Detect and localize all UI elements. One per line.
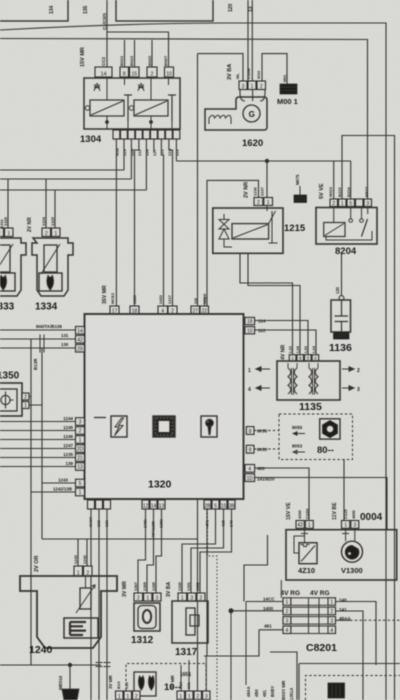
- svg-text:8: 8: [249, 429, 252, 435]
- svg-text:15V VE: 15V VE: [286, 502, 292, 520]
- svg-text:8053: 8053: [257, 447, 268, 452]
- ground M075: [294, 186, 307, 203]
- 4Z10 pins: [296, 521, 304, 529]
- svg-text:3: 3: [242, 84, 245, 90]
- 1135 transformer symbols: [288, 368, 291, 394]
- svg-text:2: 2: [151, 71, 154, 77]
- svg-text:1369: 1369: [142, 581, 147, 591]
- sensor 1334 body: [32, 238, 73, 296]
- relay 8204 body: [316, 208, 377, 245]
- relay unit 1304 body: [84, 78, 180, 129]
- 1350 pins: [22, 393, 29, 400]
- svg-text:10: 10: [247, 328, 253, 334]
- bus wire y179: [0, 178, 131, 180]
- svg-text:4V RG: 4V RG: [310, 590, 330, 597]
- svg-text:M00 1: M00 1: [277, 97, 298, 106]
- sensor 1334 pins: [42, 228, 51, 237]
- ECU 1320 left upper pins: [76, 327, 85, 335]
- wires from C8201 right: [336, 602, 377, 666]
- svg-text:2: 2: [79, 429, 82, 435]
- wire ECU 480 to 4Z10: [255, 468, 309, 521]
- svg-text:8055: 8055: [257, 429, 268, 434]
- wire 1304 to ECU pin 1433: [161, 139, 163, 306]
- svg-text:BN20: BN20: [147, 55, 152, 66]
- svg-text:2V NR: 2V NR: [244, 182, 250, 198]
- svg-text:1: 1: [118, 694, 121, 700]
- svg-text:123: 123: [175, 149, 180, 156]
- wire 1242/13B to ECU: [31, 491, 76, 493]
- svg-text:1W: 1W: [193, 298, 198, 304]
- svg-text:1240: 1240: [29, 644, 53, 656]
- svg-text:3: 3: [286, 619, 289, 625]
- svg-text:1: 1: [54, 231, 57, 237]
- svg-text:1230: 1230: [253, 186, 258, 196]
- wire ECU 114 to 1135: [255, 321, 308, 355]
- svg-text:1245: 1245: [63, 425, 73, 430]
- svg-text:4260: 4260: [297, 509, 302, 519]
- svg-text:5V VE: 5V VE: [319, 183, 325, 199]
- svg-text:4Z10: 4Z10: [298, 566, 315, 575]
- svg-text:L04: L04: [295, 345, 300, 353]
- svg-text:M075: M075: [295, 174, 300, 185]
- svg-text:B13R: B13R: [33, 358, 38, 370]
- svg-text:10: 10: [166, 71, 172, 77]
- svg-text:1: 1: [179, 694, 182, 700]
- svg-text:C8201: C8201: [306, 642, 337, 654]
- ECU bottom pins cluster2: [142, 500, 149, 509]
- svg-text:2: 2: [257, 200, 260, 206]
- ground ME016: [69, 665, 71, 689]
- ground under 1136: [334, 332, 350, 339]
- wire 8204 pin5 riser: [350, 161, 352, 199]
- box 0004: [286, 530, 397, 580]
- resistor 1312 body: [134, 603, 160, 631]
- wire 1235 to ECU: [0, 457, 76, 459]
- svg-text:C10N: C10N: [305, 509, 310, 519]
- bus wire top short (y32): [107, 32, 169, 67]
- svg-text:134: 134: [49, 5, 55, 14]
- svg-text:1: 1: [308, 523, 311, 529]
- svg-text:G: G: [249, 110, 255, 119]
- svg-text:2: 2: [357, 368, 360, 374]
- svg-text:8: 8: [123, 71, 126, 77]
- ECU 1320 left lower pins: [76, 418, 85, 426]
- svg-text:2B: 2B: [204, 503, 211, 509]
- svg-text:4: 4: [248, 467, 251, 473]
- svg-text:1: 1: [7, 231, 10, 237]
- wire branch left column (x31): [30, 339, 32, 665]
- svg-text:3V MR: 3V MR: [108, 674, 113, 689]
- wire 1215-route into ECU pin: [205, 298, 208, 306]
- idle valve 1215 pins: [254, 198, 263, 206]
- svg-text:W10: W10: [256, 70, 261, 79]
- svg-text:C125: C125: [343, 509, 348, 519]
- bus wire y161 1304-1215-8204: [176, 160, 350, 162]
- svg-text:5: 5: [349, 201, 352, 207]
- wire 130 to ECU: [0, 347, 76, 349]
- svg-text:13: 13: [248, 6, 254, 12]
- wire M40TA/B138 to ECU: [0, 329, 76, 331]
- svg-text:2D: 2D: [77, 447, 84, 453]
- svg-text:3: 3: [156, 595, 159, 601]
- relay unit 1304 bottom pins: [113, 130, 120, 139]
- wire feeds bottom pins: [180, 665, 182, 691]
- pump 1620 pins: [239, 81, 247, 90]
- svg-text:1: 1: [188, 694, 191, 700]
- wire branch to 1240 (x42): [41, 348, 43, 539]
- svg-text:C10M: C10M: [246, 68, 251, 79]
- bus wire top second: [0, 39, 368, 200]
- svg-text:1351A: 1351A: [289, 688, 294, 700]
- svg-text:1312: 1312: [131, 635, 154, 646]
- svg-text:1: 1: [286, 600, 289, 606]
- svg-text:3: 3: [205, 694, 208, 700]
- wire 1620 pin2 to ground M001: [262, 54, 287, 84]
- scan noise overlay: [0, 0, 1, 1]
- long wire x197.5 down page: [197, 54, 199, 691]
- svg-text:1350: 1350: [0, 371, 20, 382]
- injector/sensor 1334 drop wires: [45, 179, 47, 228]
- svg-text:13: 13: [159, 503, 165, 509]
- svg-text:135: 135: [83, 5, 89, 14]
- svg-text:80--: 80--: [317, 445, 334, 456]
- wire 8204 pin1 riser + top link: [342, 136, 395, 700]
- svg-text:1320: 1320: [148, 479, 172, 491]
- wire 1240 horizontal y539: [42, 538, 198, 540]
- svg-text:M01: M01: [283, 75, 287, 82]
- wire 1304 to ECU pin 1320: [135, 139, 139, 306]
- svg-text:1352: 1352: [195, 581, 200, 591]
- wire masse horizontal: [0, 664, 101, 666]
- svg-text:1330: 1330: [177, 581, 182, 591]
- ECU right pins 8055/8053: [246, 427, 254, 435]
- svg-text:3B: 3B: [228, 503, 235, 509]
- bottom-right box: [299, 664, 400, 700]
- wire 1215 pin2 loop: [207, 180, 259, 656]
- svg-text:4V NR: 4V NR: [281, 344, 287, 360]
- wire 1304 to ECU pin MCE2: [115, 139, 117, 306]
- svg-text:4850: 4850: [351, 509, 356, 519]
- svg-text:14CC: 14CC: [263, 597, 275, 602]
- svg-text:481: 481: [264, 624, 272, 629]
- svg-text:3: 3: [330, 619, 333, 625]
- wire 8204 pin2 riser: [333, 161, 335, 199]
- svg-text:1: 1: [79, 438, 82, 444]
- ground M001: [280, 84, 297, 94]
- V1300 pins: [342, 521, 350, 529]
- svg-text:3V BA: 3V BA: [166, 581, 172, 597]
- svg-text:1: 1: [341, 201, 344, 207]
- svg-text:ML: ML: [235, 73, 240, 79]
- svg-text:1400: 1400: [263, 606, 274, 611]
- svg-text:M2E: M2E: [115, 147, 120, 156]
- wire feed 1304 pin1: [106, 0, 108, 67]
- svg-text:1: 1: [330, 600, 333, 606]
- svg-text:3: 3: [79, 420, 82, 426]
- ECU 1320 body: [85, 314, 244, 499]
- ECU bottom pins cluster1: [88, 500, 95, 509]
- wire corner into bottom box: [270, 652, 297, 700]
- option icon hex bolt: [320, 419, 340, 439]
- V1300 motor: [342, 528, 355, 541]
- pump 1620 motor circle G: [243, 105, 260, 122]
- svg-text:1620: 1620: [242, 138, 263, 149]
- wires cluster1 down: [90, 509, 92, 700]
- svg-text:1242/13B: 1242/13B: [53, 487, 72, 492]
- svg-text:1244: 1244: [63, 416, 73, 421]
- svg-text:1651: 1651: [180, 672, 191, 678]
- wire 1304 to bus1: [123, 139, 125, 170]
- svg-text:1215: 1215: [284, 223, 306, 234]
- svg-text:CC2: CC2: [101, 57, 106, 66]
- ECU icon microprocessor: [153, 416, 175, 437]
- svg-text:3V MR: 3V MR: [170, 674, 175, 689]
- sensor 1333 pins: [0, 228, 4, 237]
- svg-text:1: 1: [251, 84, 254, 90]
- svg-text:V1300: V1300: [341, 566, 363, 575]
- svg-text:1: 1: [344, 523, 347, 529]
- svg-text:B0BY: B0BY: [270, 686, 275, 697]
- sensor 1350 body: [0, 383, 22, 416]
- svg-text:2: 2: [260, 84, 263, 90]
- svg-text:1324: 1324: [41, 216, 46, 226]
- svg-text:1217: 1217: [167, 294, 172, 304]
- svg-text:BN22: BN22: [129, 55, 134, 66]
- dashed box bottom-right: [306, 676, 400, 700]
- wires cluster2 to 1312: [138, 509, 146, 593]
- svg-text:1433: 1433: [158, 294, 163, 304]
- svg-text:14: 14: [77, 328, 83, 334]
- 4Z10 resistor unit: [294, 528, 308, 553]
- svg-text:1320: 1320: [132, 294, 137, 304]
- connector box top-middle: [116, 0, 213, 21]
- svg-text:1304: 1304: [80, 134, 102, 145]
- wire from 0004 box into C8201: [280, 580, 282, 598]
- svg-text:1247: 1247: [63, 443, 73, 448]
- coil unit 1135 pins: [289, 355, 296, 361]
- svg-text:1311: 1311: [0, 219, 4, 228]
- svg-text:12: 12: [143, 503, 149, 509]
- wire 1244 to ECU: [0, 421, 76, 423]
- wire 1304 to ECU pin 1217: [169, 139, 173, 306]
- svg-text:1351: 1351: [186, 581, 191, 591]
- svg-text:BN21: BN21: [119, 55, 124, 66]
- svg-text:2: 2: [137, 595, 140, 601]
- svg-text:B03Y MR: B03Y MR: [281, 680, 286, 700]
- svg-text:15V MR: 15V MR: [80, 47, 86, 67]
- ECU 1320 top pins: [110, 306, 119, 314]
- svg-text:18: 18: [247, 319, 253, 325]
- svg-text:12B: 12B: [130, 149, 135, 156]
- svg-text:3V MR: 3V MR: [122, 581, 128, 597]
- svg-text:13: 13: [77, 465, 83, 471]
- svg-text:481: 481: [262, 689, 267, 697]
- pump 1620 body: [240, 90, 265, 102]
- wire 1304 to bus3: [145, 139, 147, 190]
- svg-text:120: 120: [335, 286, 340, 294]
- relay 8204 pins: [330, 199, 338, 207]
- wires cluster3 to 1317: [182, 509, 216, 593]
- svg-text:133: 133: [124, 682, 129, 689]
- svg-text:1243: 1243: [58, 478, 68, 483]
- svg-text:42: 42: [77, 337, 83, 343]
- junction node: [265, 159, 268, 162]
- svg-text:2: 2: [196, 694, 199, 700]
- coil unit 1135 body: [277, 361, 340, 400]
- svg-text:1235: 1235: [63, 452, 73, 457]
- wire 1620 pin3 feed via left route: [198, 54, 244, 81]
- svg-text:2V NR: 2V NR: [27, 217, 33, 232]
- relay 8204 internals: [324, 223, 345, 237]
- svg-text:2: 2: [24, 394, 27, 400]
- svg-text:8053: 8053: [292, 444, 303, 449]
- wire 1243 to ECU: [42, 482, 76, 484]
- svg-text:1242: 1242: [82, 554, 87, 564]
- svg-text:1334: 1334: [35, 302, 58, 313]
- relay 1304 internals half A: [85, 77, 132, 129]
- svg-text:15: 15: [131, 71, 137, 77]
- svg-text:1: 1: [24, 403, 27, 409]
- relay unit 1304 top pins: [95, 67, 112, 77]
- icon twin sensors: [134, 672, 156, 696]
- svg-text:4: 4: [330, 628, 333, 634]
- svg-text:2: 2: [45, 231, 48, 237]
- dashed option box 10: [126, 664, 206, 700]
- svg-text:1: 1: [79, 490, 82, 496]
- wire drop BN22: [134, 40, 136, 67]
- wire drops to 1240: [77, 539, 79, 566]
- svg-text:48AA: 48AA: [246, 686, 251, 697]
- svg-text:139: 139: [66, 461, 74, 466]
- injector 1317 pins: [178, 593, 187, 601]
- ECU right pins 18/10: [245, 317, 255, 324]
- svg-text:131: 131: [61, 333, 69, 338]
- svg-text:1135: 1135: [299, 401, 322, 413]
- wire feeds 1620: [247, 0, 249, 81]
- svg-text:0004: 0004: [360, 512, 383, 523]
- svg-text:M023: M023: [328, 186, 333, 197]
- 1350 symbol: [1, 395, 10, 404]
- pump 1620 coil arm: [209, 115, 231, 124]
- 1240 heater grid: [64, 618, 98, 638]
- ECU internal dash: [94, 417, 106, 419]
- svg-text:3: 3: [353, 523, 356, 529]
- connector ticks bottom: [96, 663, 111, 667]
- wires into C8201 left: [244, 535, 268, 602]
- svg-text:1243: 1243: [73, 554, 78, 564]
- bottom connector pins middle: [177, 691, 185, 700]
- injector 1317 body: [172, 601, 208, 643]
- svg-text:1: 1: [248, 368, 251, 374]
- svg-text:B1X: B1X: [116, 681, 121, 689]
- svg-text:1D: 1D: [247, 476, 254, 482]
- icon control unit: [328, 683, 345, 698]
- wire 1304 short stub: [153, 139, 155, 152]
- dashed option box 80: [279, 414, 353, 460]
- wire ECU 141/B20 right: [255, 478, 387, 530]
- svg-text:2: 2: [135, 694, 138, 700]
- svg-text:2V OR: 2V OR: [34, 555, 40, 572]
- svg-text:ME016: ME016: [58, 675, 63, 690]
- svg-text:4: 4: [286, 628, 289, 634]
- svg-text:L14: L14: [311, 345, 316, 353]
- ECU bottom pins cluster3: [204, 500, 211, 509]
- ECU icon injection: [201, 416, 217, 437]
- wire 139 to ECU: [0, 466, 76, 468]
- svg-text:B223: B223: [337, 187, 342, 197]
- svg-text:29: 29: [77, 346, 83, 352]
- svg-text:1136: 1136: [329, 342, 352, 354]
- dashed wires 8055/8053: [254, 430, 279, 432]
- svg-text:1367: 1367: [133, 581, 138, 591]
- resistor 1312 pins: [134, 593, 143, 601]
- connector ticks: [40, 335, 44, 353]
- svg-text:42: 42: [297, 523, 303, 529]
- svg-text:8: 8: [249, 448, 252, 454]
- svg-text:120: 120: [228, 3, 234, 12]
- wire ECU 112 to 1135: [255, 330, 316, 355]
- svg-text:130: 130: [61, 342, 69, 347]
- svg-text:2: 2: [286, 609, 289, 615]
- wire drop BN20: [151, 40, 153, 67]
- wire 1304 to bus2: [130, 139, 132, 179]
- svg-text:1: 1: [267, 200, 270, 206]
- wire 8204 to 1136: [341, 254, 343, 296]
- 1240 resistor element: [80, 588, 91, 609]
- wire 1246 to ECU: [0, 439, 76, 441]
- svg-text:1: 1: [146, 595, 149, 601]
- svg-text:14: 14: [100, 71, 106, 77]
- svg-text:4V RG: 4V RG: [281, 590, 301, 597]
- svg-text:BN07: BN07: [163, 55, 168, 66]
- sensor 1240 body: [20, 576, 117, 648]
- svg-text:1317: 1317: [175, 647, 198, 658]
- svg-text:M40TA/B138: M40TA/B138: [36, 324, 62, 329]
- wire 1245 to ECU: [0, 430, 76, 432]
- sensor 1333 body: [0, 238, 26, 296]
- svg-text:2: 2: [332, 201, 335, 207]
- svg-text:1333: 1333: [0, 302, 15, 313]
- svg-text:3: 3: [366, 201, 369, 207]
- svg-text:1227: 1227: [260, 186, 265, 196]
- svg-text:124: 124: [145, 149, 150, 156]
- ECU icon lightning: [111, 416, 127, 437]
- wire 131 to ECU: [0, 338, 76, 340]
- wire to V1300: [343, 460, 345, 521]
- svg-text:3V BA: 3V BA: [227, 64, 233, 80]
- svg-text:MCE2: MCE2: [110, 292, 115, 304]
- connector C8201 grid: [283, 598, 291, 606]
- svg-text:3: 3: [357, 387, 360, 393]
- svg-text:15: 15: [221, 503, 227, 509]
- idle valve 1215 body: [213, 208, 283, 253]
- ECU right pins 480 / 141-B20: [245, 465, 255, 473]
- connector box top-left: [0, 0, 68, 21]
- svg-text:35V MR: 35V MR: [102, 285, 108, 304]
- wire 1215 pin1 drop: [266, 161, 268, 198]
- wire 1247 to ECU: [0, 448, 76, 450]
- condenser 1136 body: [331, 300, 351, 332]
- svg-text:1355: 1355: [151, 581, 156, 591]
- svg-text:1325: 1325: [50, 216, 55, 226]
- wire 1215 to 1135 pin feeds: [240, 253, 293, 354]
- dashed wire 471: [208, 509, 218, 700]
- svg-text:4: 4: [248, 387, 251, 393]
- bottom connector pins left: [116, 691, 124, 700]
- bus wire y190: [0, 189, 146, 191]
- svg-text:8204: 8204: [335, 246, 357, 257]
- svg-text:127: 127: [152, 149, 157, 156]
